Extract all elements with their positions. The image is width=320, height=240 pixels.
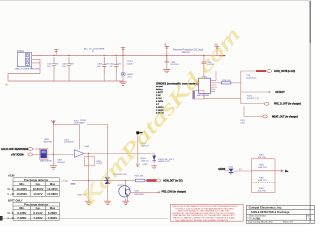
- svg-text:10.97V: 10.97V: [33, 192, 42, 196]
- svg-text:TP: TP: [92, 51, 95, 53]
- svg-text:typ.: typ.: [36, 182, 41, 186]
- svg-text:Min.: Min.: [19, 182, 25, 186]
- svg-text:10.862V: 10.862V: [16, 192, 27, 196]
- svg-text:100K 1%: 100K 1%: [141, 161, 149, 163]
- svg-text:Sheet 2 of 2: Sheet 2 of 2: [283, 221, 293, 224]
- svg-text:D302: D302: [71, 184, 76, 186]
- svg-text:WAD+POWER GROUND: WAD+POWER GROUND: [15, 68, 40, 71]
- svg-text:Max: Max: [50, 182, 56, 186]
- svg-text:MMSZ 0.47V: MMSZ 0.47V: [158, 161, 170, 163]
- svg-text:10K 1%F: 10K 1%F: [258, 157, 267, 159]
- svg-text:2-NC: 2-NC: [156, 95, 161, 97]
- svg-text:Document Number: Document Number: [251, 214, 266, 217]
- svg-text:Compal Electronics, Inc.: Compal Electronics, Inc.: [249, 206, 283, 210]
- svg-text:10.986V: 10.986V: [47, 192, 58, 196]
- svg-text:ADM708: ADM708: [44, 140, 53, 143]
- svg-text:10U/16V: 10U/16V: [57, 162, 65, 164]
- svg-text:25V: 25V: [55, 63, 59, 65]
- svg-text:6.289V: 6.289V: [48, 211, 57, 215]
- svg-text:U303: U303: [84, 146, 90, 148]
- svg-text:ACIN: ACIN: [8, 174, 14, 178]
- svg-text:Rev: Rev: [307, 215, 310, 217]
- svg-text:ACIN_DET (to EC): ACIN_DET (to EC): [163, 180, 183, 183]
- svg-text:6.214V: 6.214V: [33, 211, 42, 215]
- svg-text:+B3V: +B3V: [142, 164, 148, 166]
- svg-text:10.286V: 10.286V: [16, 187, 27, 191]
- svg-text:10.804V: 10.804V: [33, 187, 44, 191]
- svg-text:Min.: Min.: [19, 206, 25, 210]
- svg-text:100K 1%F: 100K 1%F: [258, 180, 268, 182]
- svg-text:L→H:: L→H:: [8, 216, 15, 220]
- svg-text:+5V 3COM: +5V 3COM: [11, 154, 23, 157]
- svg-text:10.325V: 10.325V: [47, 187, 58, 191]
- svg-text:10U: 10U: [47, 66, 51, 68]
- svg-text:5002K: 5002K: [127, 64, 133, 66]
- svg-text:battery:: battery:: [156, 88, 163, 91]
- svg-text:Reverse Protection DC Jack: Reverse Protection DC Jack: [173, 49, 204, 52]
- svg-text:1-BATT: 1-BATT: [156, 91, 164, 94]
- svg-text:Max: Max: [50, 206, 56, 210]
- svg-text:typ.: typ.: [36, 206, 41, 210]
- svg-text:MBR2535: MBR2535: [182, 52, 190, 54]
- svg-text:R305 47K: R305 47K: [135, 176, 145, 178]
- svg-text:BATT ONLY: BATT ONLY: [8, 198, 23, 202]
- svg-text:PJ301: PJ301: [17, 50, 24, 53]
- svg-text:7.833V: 7.833V: [48, 216, 57, 220]
- svg-text:R310 100: R310 100: [222, 80, 232, 82]
- svg-text:10U: 10U: [62, 66, 66, 68]
- svg-text:PRE_CHG (to charger): PRE_CHG (to charger): [162, 190, 187, 193]
- svg-text:ACLK-OFF RESPONSE: ACLK-OFF RESPONSE: [1, 148, 29, 151]
- svg-text:25V: 25V: [70, 63, 74, 65]
- svg-text:10U: 10U: [97, 66, 101, 68]
- svg-text:B+: B+: [6, 85, 10, 87]
- svg-text:+B: +B: [164, 44, 167, 46]
- svg-text:1000p/50V: 1000p/50V: [64, 142, 74, 144]
- svg-text:AD+ DC_IN POWER: AD+ DC_IN POWER: [84, 48, 105, 51]
- svg-text:D303: D303: [228, 166, 234, 168]
- svg-text:KamPatasKd.com: KamPatasKd.com: [76, 24, 245, 210]
- svg-text:7.240V: 7.240V: [33, 216, 42, 220]
- svg-text:sw-part: sw-part: [156, 85, 163, 88]
- svg-text:1M-F: 1M-F: [80, 122, 85, 124]
- svg-text:L→H:: L→H:: [8, 192, 15, 196]
- svg-text:MAX1632EAI: MAX1632EAI: [197, 94, 209, 97]
- svg-text:H→L:: H→L:: [8, 211, 15, 215]
- svg-text:THE CHARGE WILL RESUME THE NOR: THE CHARGE WILL RESUME THE NORMAL OPERAT…: [175, 219, 229, 222]
- svg-text:−: −: [36, 155, 38, 157]
- svg-text:ACIN & DETECTOR & Precharge: ACIN & DETECTOR & Precharge: [251, 211, 290, 214]
- svg-text:.1U: .1U: [109, 66, 113, 68]
- svg-text:7.186V: 7.186V: [17, 216, 26, 220]
- svg-text:MBAT_OUT (to charger): MBAT_OUT (to charger): [272, 115, 298, 118]
- svg-text:Precharge detector: Precharge detector: [24, 178, 49, 182]
- svg-text:(+5VA): (+5VA): [61, 179, 68, 182]
- svg-text:B-2BLR-16: B-2BLR-16: [247, 78, 258, 80]
- svg-text:PRE_D_OFF (to charger): PRE_D_OFF (to charger): [274, 103, 301, 106]
- svg-text:(R): (R): [239, 169, 242, 171]
- svg-text:2012: 2012: [127, 76, 132, 78]
- svg-text:DETECT: DETECT: [276, 92, 286, 94]
- svg-text:ACIN_OUT# (to EC): ACIN_OUT# (to EC): [274, 70, 295, 73]
- svg-text:C: C: [247, 218, 249, 220]
- svg-text:10K 1%F: 10K 1%F: [258, 191, 267, 193]
- svg-text:(DETECT_R): (DETECT_R): [247, 98, 259, 100]
- svg-text:Precharge detector: Precharge detector: [24, 203, 49, 207]
- svg-text:0.1U/50V: 0.1U/50V: [170, 64, 179, 66]
- svg-text:6.138V: 6.138V: [17, 211, 26, 215]
- svg-text:50V: 50V: [117, 63, 121, 65]
- svg-text:LA-2391: LA-2391: [252, 217, 262, 220]
- svg-text:Date: Tuesday, May 08, 2001: Date: Tuesday, May 08, 2001: [248, 221, 273, 224]
- svg-text:100K 1%F: 100K 1%F: [258, 167, 268, 169]
- svg-text:H→L:: H→L:: [8, 187, 15, 191]
- svg-text:B+: B+: [285, 169, 289, 173]
- svg-text:PMSS3904: PMSS3904: [134, 194, 145, 196]
- svg-text:0402: 0402: [241, 123, 246, 125]
- svg-text:4.7K-F: 4.7K-F: [97, 163, 104, 165]
- svg-text:MAX991EUK: MAX991EUK: [40, 160, 52, 163]
